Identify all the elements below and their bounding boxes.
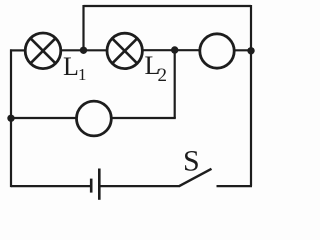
- meter circle (middle branch): [77, 101, 112, 136]
- wire: middle branch left segment: [10, 117, 78, 119]
- node B junction dot: [171, 46, 178, 53]
- wire: bottom left segment to battery: [11, 185, 90, 187]
- svg-text:1: 1: [78, 65, 87, 84]
- wire: L1 to L2 through node A: [61, 49, 108, 51]
- node A junction dot: [80, 47, 87, 54]
- lamp L2: [107, 33, 142, 68]
- wire: dropper from node B down to middle branch: [174, 50, 176, 118]
- svg-text:S: S: [183, 145, 200, 178]
- svg-text:L: L: [63, 52, 79, 81]
- switch S blade: [179, 169, 212, 187]
- wire: bottom right segment after switch: [217, 185, 253, 187]
- battery: short negative plate: [90, 179, 93, 193]
- meter circle (top right): [200, 34, 234, 68]
- battery: long positive plate: [98, 169, 101, 200]
- wire: left side vertical: [10, 49, 12, 187]
- lamp L1: [25, 33, 61, 69]
- wire: battery to switch pivot: [100, 185, 180, 187]
- wire: top horizontal: [84, 5, 252, 7]
- svg-text:2: 2: [158, 65, 168, 86]
- node D junction dot (left wire): [7, 115, 14, 122]
- wire: riser from node A to top wire: [82, 5, 84, 50]
- wire: right side vertical: [250, 5, 252, 186]
- wire: meter to right side: [234, 49, 251, 51]
- node C junction dot (right wire): [247, 47, 254, 54]
- wire: L2 to meter through node B: [142, 49, 201, 51]
- wire: left lead of L1: [10, 49, 26, 51]
- wire: middle branch right segment: [111, 117, 176, 119]
